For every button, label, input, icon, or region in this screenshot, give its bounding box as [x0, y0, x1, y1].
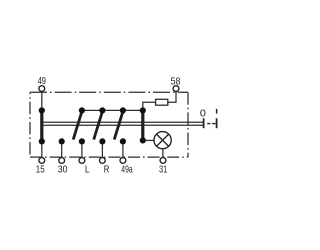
wire lamp to terminal 31	[162, 149, 164, 158]
top link wire (connects L,R,49a,58-contact dots)	[82, 109, 143, 111]
svg-text:30: 30	[58, 164, 68, 175]
position mark I	[216, 109, 218, 114]
junction dot 49a top	[120, 107, 126, 113]
svg-text:58: 58	[171, 76, 181, 87]
svg-text:31: 31	[159, 164, 167, 175]
closed contact bar c6 (lamp/58)	[141, 110, 144, 141]
stem terminal R	[101, 141, 103, 157]
stem terminal 15	[41, 141, 43, 157]
junction dot R bottom	[99, 138, 105, 144]
open contact arm R	[94, 110, 103, 139]
junction dot L bottom	[79, 138, 85, 144]
stem terminal 49a	[122, 141, 124, 157]
junction dot c6 top	[140, 107, 146, 113]
terminal R	[100, 158, 106, 164]
mechanical bridge bus (double line)	[41, 122, 203, 125]
wire terminal 49 to contact	[41, 91, 43, 110]
detent dashes	[207, 123, 215, 125]
junction dot R top	[99, 107, 105, 113]
terminal 31	[160, 158, 166, 164]
svg-text:L: L	[85, 164, 90, 175]
resistor R1	[156, 99, 168, 105]
svg-text:49: 49	[38, 76, 46, 87]
open contact arm 49a	[114, 110, 123, 139]
terminal 49a	[120, 158, 126, 164]
terminal L	[79, 158, 85, 164]
svg-text:15: 15	[36, 164, 45, 175]
position indicator bar 0	[203, 118, 205, 128]
closed contact bar c1 (15/49)	[40, 110, 43, 141]
svg-text:R: R	[104, 164, 110, 175]
stem terminal 30	[61, 141, 63, 157]
svg-text:49a: 49a	[121, 164, 133, 175]
junction dot 30 bottom	[59, 138, 65, 144]
wire resistor to contact c6	[143, 102, 156, 110]
terminal 58	[173, 86, 179, 92]
open contact arm L	[73, 110, 82, 139]
terminal 30	[59, 158, 65, 164]
wire 58 down and left to resistor	[168, 91, 176, 102]
junction dot c6 bottom	[140, 137, 146, 143]
junction dot 49a bottom	[120, 138, 126, 144]
svg-text:0: 0	[200, 108, 206, 119]
wire contact c6 to lamp	[143, 139, 154, 141]
position indicator bar I	[216, 118, 218, 128]
housing outline dash-dot	[30, 92, 188, 157]
stem terminal L	[81, 141, 83, 157]
junction dot L top	[79, 107, 85, 113]
junction dot 15 bottom	[39, 138, 45, 144]
terminal 49	[39, 86, 45, 92]
terminal 15	[39, 158, 45, 164]
junction dot c1 top	[39, 107, 45, 113]
lamp E1	[154, 132, 171, 149]
